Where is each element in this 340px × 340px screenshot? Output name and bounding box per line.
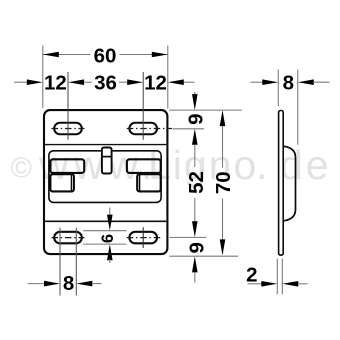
dimension 8 bottom right arrow bbox=[76, 281, 92, 287]
dimension 36 left arrow bbox=[68, 79, 84, 85]
side dimension 8 left arrow bbox=[251, 81, 264, 83]
side view bulge bbox=[284, 146, 296, 221]
svg-text:36: 36 bbox=[94, 72, 117, 95]
dimension 70 down arrow bbox=[220, 239, 226, 255]
inner recessed rectangle bbox=[49, 151, 161, 203]
slot bottom-right bbox=[129, 232, 157, 244]
lower band line across plate bbox=[45, 220, 166, 222]
dimension 52 line upper bbox=[194, 145, 196, 167]
svg-text:60: 60 bbox=[94, 44, 117, 67]
dimension 60 right arrow bbox=[152, 52, 168, 58]
svg-text:9: 9 bbox=[185, 113, 208, 124]
extension line bottom slot CL right stub bbox=[169, 236, 206, 238]
upper band line across plate bbox=[45, 144, 166, 146]
dimension 60 line bbox=[43, 54, 91, 56]
side dimension 2 left arrow bbox=[248, 283, 262, 285]
svg-text:2: 2 bbox=[246, 264, 257, 287]
svg-text:de: de bbox=[280, 142, 332, 188]
dimension 52 down arrow bbox=[192, 221, 198, 237]
svg-text:8: 8 bbox=[283, 72, 294, 95]
left hook bar bbox=[50, 159, 84, 173]
dimension 6 up arrow bbox=[107, 244, 113, 260]
extension line top slot CL right stub bbox=[173, 128, 205, 130]
svg-text:8: 8 bbox=[63, 272, 74, 295]
centerline top-right slot horizontal bbox=[127, 128, 172, 130]
centerline bottom-right slot vertical bbox=[142, 227, 144, 248]
right hook bar bbox=[127, 159, 161, 173]
dimension 8 bottom left arrow bbox=[28, 283, 45, 285]
dimension 60 left arrow bbox=[43, 52, 59, 58]
dimension 12-36-12 right outside arrow bbox=[168, 79, 184, 85]
extension line plate left edge bbox=[42, 46, 44, 109]
svg-text:.: . bbox=[256, 142, 267, 188]
extension line plate bottom right bbox=[169, 255, 238, 257]
dimension 9 bottom: up arrow below bbox=[192, 256, 198, 272]
center tab bbox=[102, 148, 112, 174]
centerline top-left slot horizontal bbox=[52, 128, 85, 130]
dimension 12-36-12 left outside arrow bbox=[14, 81, 28, 83]
plate outline (front view) bbox=[44, 110, 167, 254]
svg-text:6: 6 bbox=[99, 234, 117, 243]
extension line right slot column bbox=[142, 72, 144, 140]
dimension 6 down arrow bbox=[109, 208, 111, 217]
center tab divider bbox=[101, 156, 112, 158]
svg-text:9: 9 bbox=[185, 242, 208, 253]
right hook pad inner edge bbox=[139, 175, 141, 192]
svg-text:12: 12 bbox=[144, 72, 167, 95]
extension line plate right edge bbox=[167, 46, 169, 109]
side dimension 8 right arrow bbox=[298, 79, 314, 85]
svg-text:12: 12 bbox=[44, 72, 67, 95]
slot top-right bbox=[129, 123, 157, 135]
dimension 36 right arrow bbox=[119, 81, 127, 83]
side 8 extension lines bbox=[277, 70, 279, 107]
side view bar bbox=[279, 111, 284, 256]
dimension 9 top: down arrow bbox=[194, 92, 196, 96]
right hook pad bbox=[137, 174, 161, 191]
svg-text:©: © bbox=[11, 152, 32, 184]
side 2 extension lines bbox=[276, 259, 278, 295]
dimension 6 extension lines bbox=[83, 230, 126, 232]
extension line plate top right bbox=[169, 109, 242, 111]
slot bottom-left bbox=[54, 232, 82, 244]
centerline bottom-left slot horizontal bbox=[52, 237, 85, 239]
dimension 70 up arrow bbox=[220, 110, 226, 126]
dimension 8 bottom extension lines bbox=[59, 228, 61, 296]
extension line left slot column bbox=[67, 72, 69, 140]
svg-text:70: 70 bbox=[212, 171, 235, 194]
dimension 70 line bbox=[222, 112, 224, 168]
side dimension 2 right arrow bbox=[282, 281, 298, 287]
svg-text:52: 52 bbox=[185, 171, 208, 194]
left hook pad inner edge bbox=[70, 175, 72, 192]
centerline bottom-right slot horizontal bbox=[127, 237, 161, 239]
slot top-left bbox=[54, 123, 82, 135]
dimension 52 line lower bbox=[194, 198, 196, 222]
dimension 9 top: up arrow (shared with 52) bbox=[192, 129, 198, 145]
left hook pad bbox=[50, 174, 74, 191]
